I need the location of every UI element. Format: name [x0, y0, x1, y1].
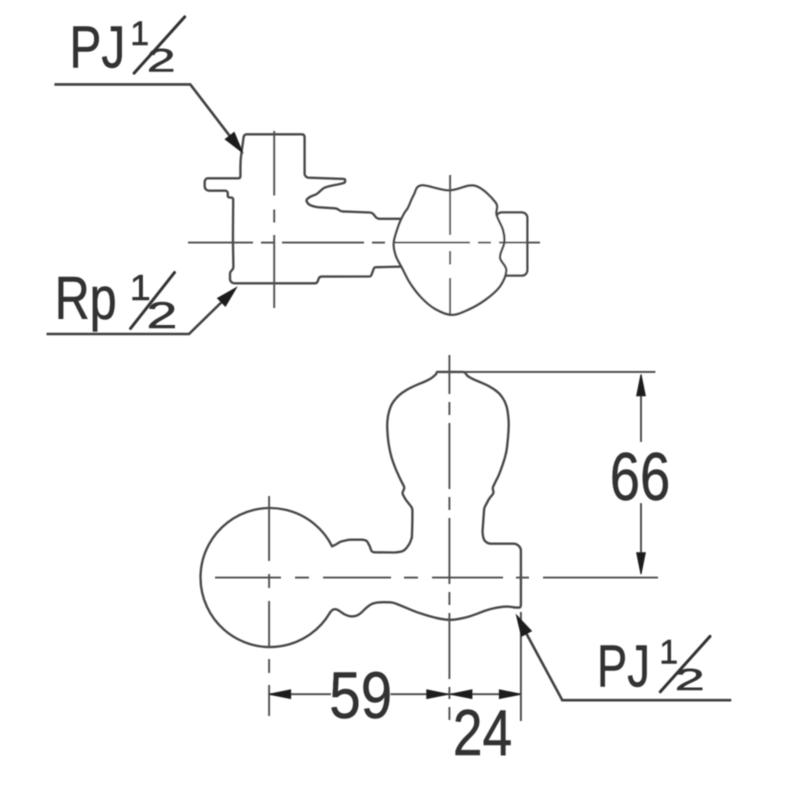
svg-text:2: 2: [675, 663, 705, 697]
svg-text:66: 66: [610, 439, 671, 515]
svg-text:Rp: Rp: [55, 265, 117, 332]
label PJ 1/2 top left leader: [54, 84, 240, 150]
centerline valve vertical front view: [448, 355, 450, 720]
valve bonnet and body front view outline: [330, 372, 521, 620]
centerline horizontal front view: [215, 577, 658, 579]
svg-text:PJ: PJ: [70, 15, 126, 81]
centerline ball vertical front view: [268, 496, 270, 716]
centerline pipe vertical top view: [273, 131, 275, 308]
svg-text:PJ: PJ: [597, 634, 650, 700]
dimension 66 arrows: [637, 374, 646, 574]
label PJ 1/2 bottom right leader: [518, 619, 731, 700]
valve body top view outline: [205, 134, 411, 283]
label Rp 1/2 left leader: [47, 290, 235, 335]
dimension 66 line: [640, 376, 642, 573]
svg-text:24: 24: [453, 696, 512, 769]
dimension 59-24 line: [269, 693, 521, 695]
svg-text:2: 2: [147, 294, 178, 336]
spout upper outline front view: [332, 537, 412, 552]
extension line right: [520, 612, 522, 721]
centerline knob vertical top view: [449, 175, 451, 316]
handle knob top view: [394, 185, 507, 314]
dimension 59-24 arrows: [269, 690, 521, 699]
dimension 66 extension line top: [464, 371, 655, 373]
svg-text:59: 59: [329, 659, 392, 733]
svg-text:2: 2: [147, 43, 176, 79]
handle ball front view (arc): [201, 508, 333, 647]
centerline horizontal top view: [188, 242, 540, 244]
outlet tab top view: [496, 212, 527, 275]
